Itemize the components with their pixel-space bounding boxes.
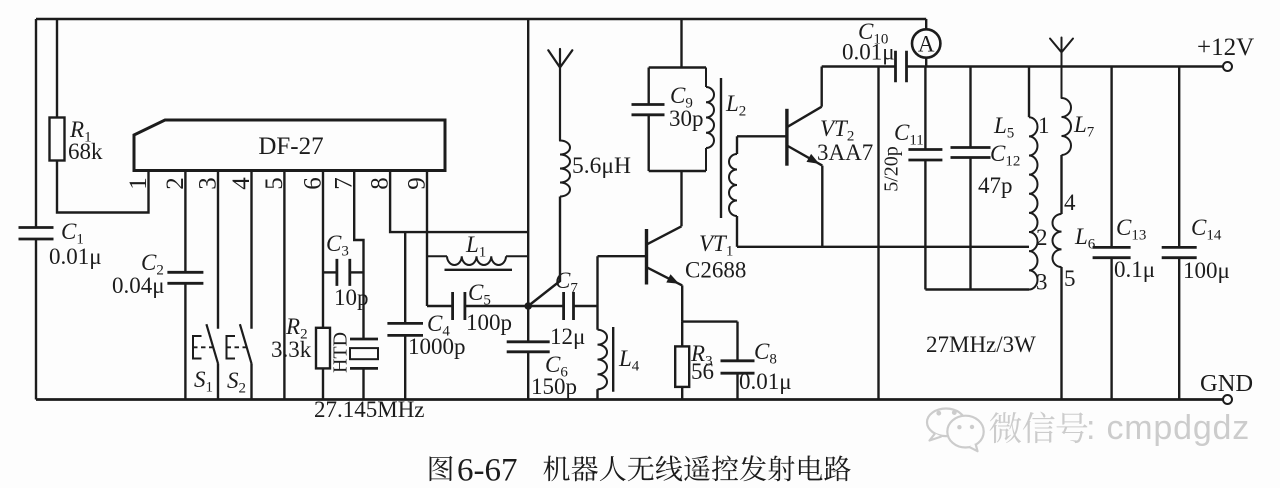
svg-text:5.6μH: 5.6μH xyxy=(572,153,631,179)
wire: C8 to ground bus xyxy=(736,373,738,399)
IC U1 DF-27 remote-control encoder xyxy=(134,120,445,171)
wire: bottom line to L5 tap 3 xyxy=(925,288,1029,290)
wire: R1 bottom to IC pin 1 xyxy=(57,161,149,213)
node A junction dot xyxy=(524,302,532,310)
wire: VT2 collector up to +12V rail xyxy=(821,67,823,107)
wire: pin 8 jog across to tank column xyxy=(390,171,528,232)
wire: L6 to ground bus xyxy=(1060,267,1062,400)
svg-text:100μ: 100μ xyxy=(1183,258,1230,283)
capacitor C4 1000p xyxy=(387,323,423,335)
+12V terminal xyxy=(1223,62,1232,71)
ground bus xyxy=(36,398,1223,401)
inductor 5.6uH xyxy=(560,141,570,197)
figure caption xyxy=(430,456,453,481)
wire: node to C7 xyxy=(528,305,563,307)
svg-text:1: 1 xyxy=(1038,113,1050,138)
svg-text:GND: GND xyxy=(1200,370,1253,397)
wire: L7 to L6 xyxy=(1060,155,1062,214)
wire: node column up to top line xyxy=(527,19,529,306)
wire: top supply line xyxy=(36,18,926,21)
capacitor C14 100u xyxy=(1178,67,1180,248)
+12V supply rail xyxy=(822,65,1223,67)
svg-text:0.01μ: 0.01μ xyxy=(739,369,792,394)
wire: pin 6 down to R2 xyxy=(322,171,324,328)
capacitor C11 5/20p trimmer xyxy=(924,67,926,150)
wire: left branch from top line down to C1 xyxy=(35,19,37,228)
resistor R1 68k xyxy=(56,19,58,118)
wire: L2 secondary bottom down to emitter rail xyxy=(736,216,738,247)
svg-text:0.04μ: 0.04μ xyxy=(112,273,165,298)
wire: VT1 collector up to C9/L2 tank xyxy=(680,171,682,226)
wire: C11 down to L5 bottom line xyxy=(924,160,926,290)
antenna (driver stage) xyxy=(548,49,572,141)
svg-text:C2688: C2688 xyxy=(685,258,746,283)
capacitor C9 30p (in tank) xyxy=(648,68,650,105)
svg-text:3AA7: 3AA7 xyxy=(817,140,873,165)
watermark text xyxy=(990,412,1022,443)
wire: S2 to ground bus xyxy=(250,364,252,400)
svg-text:+12V: +12V xyxy=(1197,34,1254,61)
svg-text:6-67: 6-67 xyxy=(457,453,518,488)
svg-text:0.01μ: 0.01μ xyxy=(49,244,102,269)
wire: tank stem to top line xyxy=(680,19,682,68)
wire: tank left to C5 xyxy=(427,305,453,307)
wire: pin 7 jog to crystal branch xyxy=(354,171,363,339)
wire: C4 to ground bus xyxy=(404,335,406,399)
core line of L2 xyxy=(720,78,722,218)
core line of L4 xyxy=(612,327,614,392)
wire: C6 to ground bus xyxy=(527,352,529,400)
inductor L4 xyxy=(598,330,608,389)
svg-text:150p: 150p xyxy=(531,374,577,399)
resistor R2 3.3k xyxy=(316,328,330,369)
transformer L2 primary winding xyxy=(706,68,714,172)
svg-text:56: 56 xyxy=(691,359,714,384)
inductor L5 (tapped) xyxy=(1028,67,1030,118)
GND terminal xyxy=(1223,395,1232,404)
svg-text:27MHz/3W: 27MHz/3W xyxy=(926,332,1036,357)
svg-text:30p: 30p xyxy=(669,106,704,131)
capacitor C7 12u xyxy=(564,292,574,320)
capacitor C5 100p xyxy=(453,292,465,320)
svg-text:12μ: 12μ xyxy=(550,324,585,349)
wire: R3 to ground bus xyxy=(681,387,683,400)
wire: L2 secondary top to VT2 base xyxy=(737,135,787,137)
ammeter A xyxy=(925,19,927,67)
inductor L1 xyxy=(427,256,528,265)
wire: C7 to VT1 base column xyxy=(574,305,598,307)
wire: pin 4 to switch S2 xyxy=(250,171,252,329)
svg-text:DF-27: DF-27 xyxy=(258,133,323,160)
capacitor C13 0.1u xyxy=(1110,67,1112,248)
wire: coil down and diagonal to node A xyxy=(528,197,560,307)
wire: C2 to ground bus xyxy=(184,283,186,399)
svg-text:2: 2 xyxy=(1036,225,1048,250)
wire: VT1 base column through C7 junction down to L4 xyxy=(596,256,598,330)
svg-text:: cmpdgdz: : cmpdgdz xyxy=(1086,409,1250,447)
capacitor C3 10p xyxy=(337,259,350,286)
wire: crystal to ground bus xyxy=(362,368,364,399)
wire: tank top and bottom xyxy=(649,68,706,172)
inductor L7 xyxy=(1062,98,1072,155)
wire: R2 to ground bus xyxy=(322,368,324,399)
wire: L4 to ground bus xyxy=(596,389,598,399)
svg-text:4: 4 xyxy=(1064,190,1076,215)
wire: C12 down to L5 bottom line xyxy=(969,158,971,290)
wire: vertical branch rail-to-bus at x878 xyxy=(877,67,879,400)
capacitor C12 47p xyxy=(969,67,971,148)
svg-text:0.01μ: 0.01μ xyxy=(842,40,895,65)
resistor R3 56 xyxy=(681,322,683,347)
svg-text:1000p: 1000p xyxy=(408,334,466,359)
svg-text:47p: 47p xyxy=(978,173,1013,198)
wire: S1 to ground bus xyxy=(217,364,219,400)
core line of L1 xyxy=(445,269,513,271)
wire: C3 right connection to pin-7 line xyxy=(350,271,364,273)
svg-text:68k: 68k xyxy=(68,139,103,164)
svg-text:0.1μ: 0.1μ xyxy=(1114,257,1155,282)
svg-text:1: 1 xyxy=(125,177,152,190)
wire: pin 3 to switch S1 xyxy=(217,171,219,329)
wire: C4 branch down from jog xyxy=(404,232,406,323)
svg-text:A: A xyxy=(918,32,935,57)
wire: pin 9 down left side of L1 tank xyxy=(426,171,428,306)
switch S1 (pushbutton) xyxy=(206,324,218,363)
capacitor C6 150p xyxy=(527,306,529,342)
wire: C3 left connection to pin-6 line xyxy=(323,271,337,273)
wire: C1 to ground bus xyxy=(35,239,37,400)
svg-text:5/20p: 5/20p xyxy=(881,146,903,192)
capacitor C1 0.01u xyxy=(19,228,54,240)
crystal HTD 27.145MHz xyxy=(350,338,378,341)
svg-text:HTD: HTD xyxy=(330,332,352,373)
transistor VT2 3AA7 xyxy=(785,109,788,166)
antenna (output) xyxy=(1050,38,1073,99)
wire: VT2 emitter down to tap line xyxy=(821,166,823,247)
capacitor C2 0.04u xyxy=(167,272,203,283)
wire: tap line from L2 secondary to L5 tap 2 xyxy=(737,246,1029,248)
svg-text:100p: 100p xyxy=(466,310,512,335)
wire: emitter node to C8 xyxy=(682,320,737,322)
transistor VT1 C2688 (NPN) xyxy=(645,229,648,285)
capacitor C8 0.01u xyxy=(736,322,738,361)
svg-text:5: 5 xyxy=(1064,266,1076,291)
wire: C5 to node A xyxy=(465,305,528,307)
inductor L6 xyxy=(1052,214,1061,267)
wire: VT1 emitter down to R3 node xyxy=(681,285,683,321)
wire: pin 2 to C2 xyxy=(184,171,186,272)
watermark wechat logo xyxy=(927,409,965,441)
svg-text:3.3k: 3.3k xyxy=(271,337,312,362)
svg-text:3: 3 xyxy=(1036,270,1048,295)
wire: pin 5 to ground bus xyxy=(283,171,285,400)
switch S2 (pushbutton) xyxy=(240,324,252,363)
transformer L2 secondary winding xyxy=(736,136,738,154)
capacitor C10 0.01u (in rail) xyxy=(896,51,907,82)
